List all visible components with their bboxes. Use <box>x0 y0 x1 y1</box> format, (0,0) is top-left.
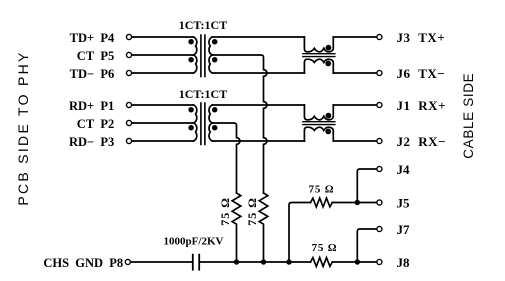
svg-text:75 Ω: 75 Ω <box>245 197 259 226</box>
svg-text:CT P5: CT P5 <box>74 49 115 63</box>
svg-text:1CT:1CT: 1CT:1CT <box>179 87 227 101</box>
svg-text:J4: J4 <box>397 162 411 177</box>
svg-text:J1 RX+: J1 RX+ <box>397 98 447 113</box>
svg-text:J5: J5 <box>397 196 411 211</box>
svg-text:CHS GND P8: CHS GND P8 <box>43 256 123 270</box>
svg-text:RD− P3: RD− P3 <box>69 135 114 149</box>
svg-text:CABLE SIDE: CABLE SIDE <box>461 73 476 159</box>
svg-text:75 Ω: 75 Ω <box>312 242 338 254</box>
svg-text:75 Ω: 75 Ω <box>309 184 335 196</box>
svg-text:J6 TX−: J6 TX− <box>397 66 446 81</box>
svg-text:TD+ P4: TD+ P4 <box>70 31 115 45</box>
svg-text:RD+ P1: RD+ P1 <box>69 99 114 113</box>
svg-text:75 Ω: 75 Ω <box>218 197 232 226</box>
svg-text:TD− P6: TD− P6 <box>70 67 115 81</box>
svg-text:PCB SIDE TO PHY: PCB SIDE TO PHY <box>15 50 31 205</box>
svg-text:J7: J7 <box>397 222 411 237</box>
svg-text:J2 RX−: J2 RX− <box>397 134 447 149</box>
svg-text:CT P2: CT P2 <box>74 117 115 131</box>
svg-text:J8: J8 <box>397 255 411 270</box>
svg-text:1000pF/2KV: 1000pF/2KV <box>164 236 224 248</box>
svg-text:1CT:1CT: 1CT:1CT <box>179 18 227 32</box>
svg-text:J3 TX+: J3 TX+ <box>397 30 446 45</box>
